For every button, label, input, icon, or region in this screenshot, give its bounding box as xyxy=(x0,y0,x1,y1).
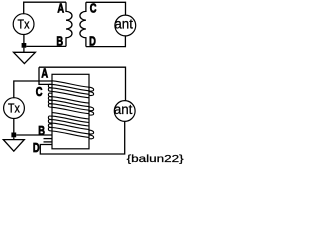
wire terminal C to ant top xyxy=(86,2,126,15)
wire Tx bottom to ground node xyxy=(23,34,25,43)
svg-text:ant: ant xyxy=(114,102,133,117)
winding pass 11 (front crossing) xyxy=(48,116,89,126)
svg-text:B: B xyxy=(38,124,45,138)
winding pass 5 (front crossing) xyxy=(48,93,89,103)
wire winding exit D down to bottom rail to ant bottom xyxy=(40,121,124,154)
svg-text:D: D xyxy=(33,142,40,156)
wire Tx bottom to ground node (bottom) xyxy=(13,118,15,133)
winding wrap loops at right edge, cluster 1 xyxy=(88,87,93,91)
junction Tx ground node (top) xyxy=(22,43,27,48)
svg-text:{balun22}: {balun22} xyxy=(127,153,184,164)
svg-text:C: C xyxy=(36,86,43,100)
winding exit stub 2 xyxy=(44,141,53,143)
svg-text:A: A xyxy=(57,2,64,16)
svg-text:C: C xyxy=(90,2,97,16)
winding pass 1 (front crossing) xyxy=(52,81,89,87)
secondary winding L2 terminals C-D xyxy=(80,2,86,46)
svg-text:B: B xyxy=(56,35,63,49)
generator Tx (top) xyxy=(13,14,34,35)
winding pass 3 (front crossing) xyxy=(48,84,89,94)
winding pass 10 (front crossing) xyxy=(52,116,89,122)
winding pass 12 (front crossing) xyxy=(48,119,89,129)
winding wrap loops at right edge, cluster 3 xyxy=(88,130,93,134)
antenna load ant (bottom) xyxy=(114,101,135,122)
wire Tx top to terminal A xyxy=(24,2,66,14)
antenna load ant (top) xyxy=(115,15,136,36)
wire ground node to terminal B xyxy=(26,45,66,47)
winding pass 6 (front crossing) xyxy=(48,97,89,107)
svg-text:D: D xyxy=(89,35,96,49)
primary winding L1 terminals A-B xyxy=(66,2,72,46)
svg-text:A: A xyxy=(41,67,48,81)
svg-text:Tx: Tx xyxy=(8,102,20,116)
ferrite rod core xyxy=(52,74,89,149)
wire terminal A vertical from top rail to winding entry conductor 2 xyxy=(39,67,52,84)
winding pass 13 (front crossing) xyxy=(48,124,89,134)
winding pass 8 (front crossing) xyxy=(48,104,89,114)
winding pass 2 (front crossing) xyxy=(52,84,89,90)
winding exit stub 1 xyxy=(44,138,53,140)
svg-text:Tx: Tx xyxy=(17,18,29,32)
winding pass 7 (front crossing) xyxy=(48,100,89,110)
wire top rail A to ant top xyxy=(39,67,126,100)
generator Tx (bottom) xyxy=(4,98,25,119)
wire terminal D to ant bottom xyxy=(86,36,126,47)
wire Tx top to winding entry conductor 1 xyxy=(14,81,52,98)
junction Tx ground node (bottom) xyxy=(11,133,16,138)
winding wrap loops at right edge, cluster 2 xyxy=(88,107,93,111)
svg-text:ant: ant xyxy=(114,16,133,31)
ground symbol (top) xyxy=(23,48,25,53)
winding pass 4 (front crossing) xyxy=(48,88,89,98)
winding pass 9 (front crossing) xyxy=(52,113,89,119)
ground symbol (bottom) xyxy=(13,137,15,139)
wire ground node to winding exit B xyxy=(16,134,52,136)
winding pass 14 (front crossing) xyxy=(48,127,89,137)
